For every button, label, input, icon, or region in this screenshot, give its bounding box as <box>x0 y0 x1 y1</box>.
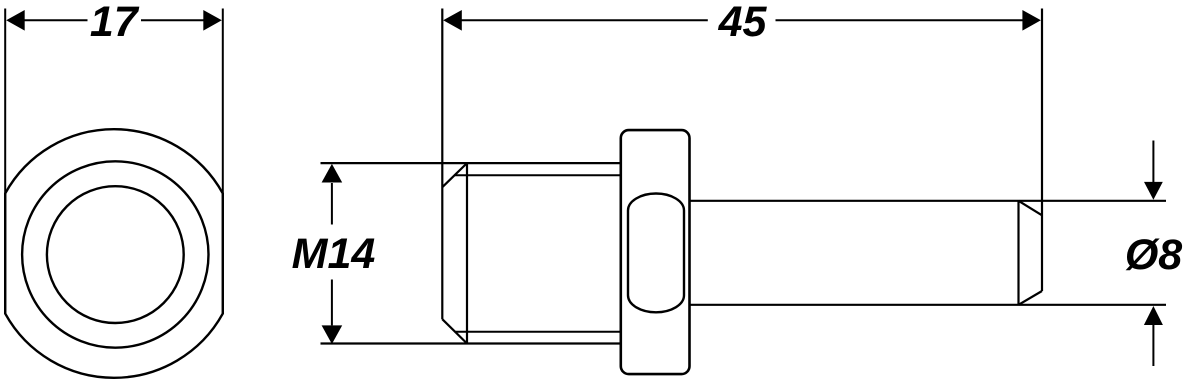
svg-text:17: 17 <box>90 0 140 46</box>
svg-text:Ø8: Ø8 <box>1125 231 1182 279</box>
svg-text:45: 45 <box>718 0 768 46</box>
svg-text:M14: M14 <box>292 230 376 278</box>
